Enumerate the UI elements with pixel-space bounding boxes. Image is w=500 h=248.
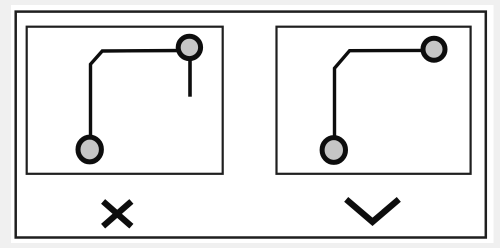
wrong mark (X) [103,201,131,226]
wire (left example) [91,51,187,150]
node C (right bottom terminal) [322,138,345,163]
wire (right example) [335,50,431,149]
wire stub past node (left example) [188,55,192,97]
node D (right top terminal) [423,38,445,60]
node B (left top terminal) [178,36,200,58]
node A (left bottom terminal) [78,137,101,162]
right example box [277,27,471,174]
left example box [27,27,223,174]
correct mark (check chevron) [346,199,399,221]
